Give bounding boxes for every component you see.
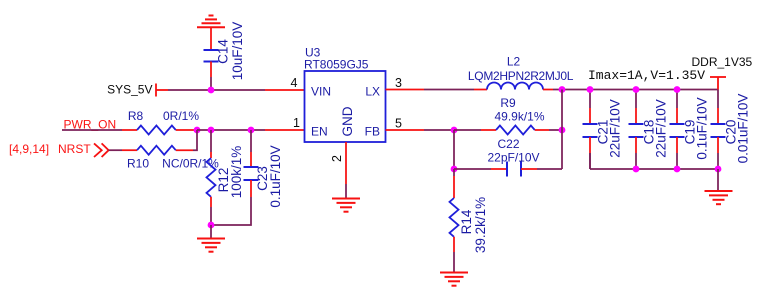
svg-text:10uF/10V: 10uF/10V bbox=[230, 22, 245, 81]
resistor R14 bbox=[450, 176, 459, 252]
wire C22 right to Vout branch bbox=[537, 168, 562, 170]
capacitor C20 bbox=[711, 90, 726, 170]
junction R12/C23 ground node bbox=[208, 222, 215, 229]
svg-text:3: 3 bbox=[395, 76, 402, 90]
wire NRST bbox=[109, 149, 122, 151]
ground (under R14) bbox=[440, 273, 468, 286]
junction Vout/L2 bbox=[559, 86, 566, 93]
pin 3 lead LX bbox=[386, 89, 425, 91]
wire EN to R12 bbox=[210, 130, 212, 152]
junction top rail C19 bbox=[674, 86, 681, 93]
wire FB to divider bbox=[424, 129, 454, 131]
net tick DDR_1V35 bbox=[710, 76, 726, 78]
svg-text:[4,9,14]: [4,9,14] bbox=[9, 142, 49, 156]
power ground (top, above C14) bbox=[197, 16, 225, 28]
inductor L2 bbox=[474, 83, 553, 90]
svg-text:R9: R9 bbox=[500, 96, 516, 110]
wire C22 left bbox=[454, 168, 491, 170]
svg-text:39.2k/1%: 39.2k/1% bbox=[473, 197, 488, 253]
junction top rail C21 bbox=[587, 86, 594, 93]
wire L2 to output rail bbox=[553, 89, 718, 91]
junction FB node bbox=[451, 127, 458, 134]
svg-text:L2: L2 bbox=[507, 55, 521, 69]
junction bottom rail C20/ground bbox=[715, 166, 722, 173]
svg-text:49.9k/1%: 49.9k/1% bbox=[494, 110, 544, 124]
op-amp U3 body bbox=[305, 71, 386, 142]
pin 4 lead VIN bbox=[265, 89, 305, 91]
wire R12 to ground node bbox=[210, 207, 212, 225]
svg-text:R10: R10 bbox=[127, 157, 149, 171]
svg-text:0.1uF/10V: 0.1uF/10V bbox=[268, 145, 283, 207]
capacitor C22 bbox=[491, 162, 537, 177]
wire C23 to ground node bbox=[211, 197, 251, 225]
svg-text:VIN: VIN bbox=[311, 85, 331, 99]
svg-text:NRST: NRST bbox=[58, 142, 91, 156]
wire FB node to R9 bbox=[454, 129, 481, 131]
capacitor C23 bbox=[244, 152, 259, 197]
wire FB node down to C22 bbox=[453, 130, 455, 169]
svg-text:100k/1%: 100k/1% bbox=[229, 146, 244, 199]
wire SYS_5V bbox=[168, 89, 265, 91]
off-page connector chevron bbox=[94, 143, 109, 157]
junction SYS_5V/C14 bbox=[208, 87, 215, 94]
junction R8/R10/EN bbox=[194, 127, 201, 134]
wire pin2 to ground bbox=[345, 184, 347, 198]
junction bottom rail C19 bbox=[674, 166, 681, 173]
svg-text:SYS_5V: SYS_5V bbox=[107, 83, 152, 97]
svg-text:5: 5 bbox=[395, 116, 402, 130]
svg-text:DDR_1V35: DDR_1V35 bbox=[692, 55, 753, 69]
junction C22/R14 node bbox=[451, 166, 458, 173]
wire Vout branch vertical bbox=[561, 90, 563, 170]
svg-text:0.01uF/10V: 0.01uF/10V bbox=[736, 94, 751, 164]
capacitor C19 bbox=[670, 90, 685, 170]
svg-text:LX: LX bbox=[365, 85, 380, 99]
wire EN to C23 bbox=[250, 130, 252, 152]
wire to ground (right) bbox=[717, 169, 719, 191]
resistor R9 bbox=[481, 126, 549, 135]
wire to ground (bottom-left) bbox=[210, 225, 212, 238]
net tick SYS_5V bbox=[155, 84, 157, 97]
svg-text:0.1uF/10V: 0.1uF/10V bbox=[695, 97, 710, 159]
svg-text:Imax=1A,V=1.35V: Imax=1A,V=1.35V bbox=[588, 68, 705, 83]
svg-text:RT8059GJ5: RT8059GJ5 bbox=[304, 58, 369, 72]
wire R10 up to junction bbox=[193, 130, 197, 150]
svg-text:GND: GND bbox=[340, 106, 355, 136]
svg-text:C22: C22 bbox=[497, 137, 519, 151]
ground (bottom-left) bbox=[197, 239, 225, 252]
svg-text:22uF/10V: 22uF/10V bbox=[608, 99, 623, 158]
junction C23 bbox=[248, 127, 255, 134]
pin 1 lead EN bbox=[265, 129, 305, 131]
resistor R10 bbox=[122, 146, 193, 155]
wire FB node to R14 bbox=[453, 169, 455, 176]
resistor R12 bbox=[207, 152, 216, 207]
ground (under U3) bbox=[332, 199, 360, 212]
ground (bottom-right) bbox=[705, 191, 733, 204]
svg-text:22uF/10V: 22uF/10V bbox=[654, 99, 669, 158]
wire PWR_ON bbox=[62, 129, 122, 131]
pin 5 lead FB bbox=[386, 129, 425, 131]
svg-text:FB: FB bbox=[365, 125, 380, 139]
wire R14 to ground bbox=[453, 252, 455, 272]
capacitor C18 bbox=[629, 90, 644, 170]
pin 2 lead GND bbox=[345, 142, 347, 184]
svg-text:22pF/10V: 22pF/10V bbox=[487, 151, 539, 165]
svg-text:0R/1%: 0R/1% bbox=[163, 109, 199, 123]
wire C21 corner bbox=[589, 153, 591, 169]
svg-text:R8: R8 bbox=[128, 109, 144, 123]
capacitor C21 bbox=[583, 90, 598, 170]
bottom ground rail bbox=[590, 168, 718, 170]
resistor R8 bbox=[122, 126, 197, 135]
svg-text:EN: EN bbox=[311, 125, 328, 139]
junction bottom rail C18 bbox=[633, 166, 640, 173]
svg-text:LQM2HPN2R2MJ0L: LQM2HPN2R2MJ0L bbox=[468, 69, 574, 83]
junction R12 bbox=[208, 127, 215, 134]
wire C14 to SYS_5V net bbox=[210, 77, 212, 90]
capacitor C14 bbox=[204, 27, 219, 77]
wire R9 to Vout bbox=[549, 129, 562, 131]
svg-text:R14: R14 bbox=[459, 209, 474, 234]
svg-text:1: 1 bbox=[293, 116, 300, 130]
junction top rail C18 bbox=[633, 86, 640, 93]
svg-text:C14: C14 bbox=[216, 39, 231, 64]
junction R9/Vout branch bbox=[559, 127, 566, 134]
wire R8 junction to EN bbox=[197, 129, 265, 131]
svg-text:2: 2 bbox=[330, 155, 344, 162]
wire LX to L2 bbox=[424, 89, 474, 91]
svg-text:4: 4 bbox=[291, 76, 298, 90]
